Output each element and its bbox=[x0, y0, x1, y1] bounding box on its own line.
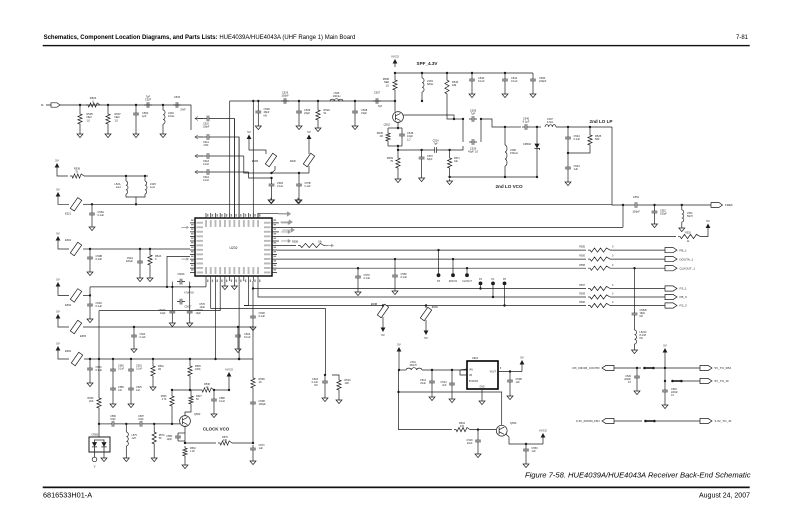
ferrite bead E52F bbox=[303, 153, 314, 166]
test point P3 bbox=[438, 250, 440, 273]
wire bbox=[83, 326, 253, 328]
svg-text:10pF: 10pF bbox=[196, 312, 202, 315]
wire bbox=[98, 410, 100, 437]
svg-text:VIN: VIN bbox=[469, 370, 473, 372]
page footer rule bbox=[43, 487, 750, 489]
input arrow bbox=[195, 117, 198, 121]
svg-text:100K: 100K bbox=[195, 368, 201, 371]
svg-text:0.1uF: 0.1uF bbox=[136, 368, 143, 371]
svg-text:FB_3: FB_3 bbox=[680, 295, 688, 299]
wire bbox=[125, 176, 127, 181]
connector 3.3V_FROM_FBJ input bbox=[602, 418, 614, 423]
power 5V arrow down bbox=[381, 328, 386, 333]
svg-text:100pF: 100pF bbox=[203, 125, 210, 128]
svg-text:10pF: 10pF bbox=[167, 438, 173, 441]
wire bbox=[244, 281, 249, 306]
capacitor C51B 0.1uF bbox=[269, 181, 275, 189]
wire bbox=[421, 92, 423, 101]
inductor L575 1uH bbox=[126, 432, 128, 446]
wire bbox=[238, 281, 240, 359]
wire bbox=[421, 73, 423, 78]
wire bbox=[233, 281, 235, 284]
capacitor C541 0.1uF bbox=[502, 76, 508, 84]
power VVCO arrow bbox=[393, 59, 398, 64]
power 5V arrow bbox=[56, 314, 61, 319]
wire bbox=[308, 143, 310, 155]
inductor L505 100nH bbox=[330, 99, 343, 101]
wire bbox=[610, 288, 665, 290]
wire bbox=[477, 430, 479, 437]
wire FS bus vertical bbox=[252, 281, 254, 313]
resistor R510 18k bbox=[445, 78, 449, 96]
wire bbox=[214, 380, 229, 390]
svg-text:470: 470 bbox=[223, 439, 228, 442]
capacitor C503 0.1uF bbox=[87, 301, 93, 309]
wire bbox=[388, 127, 402, 129]
capacitor C524B 0.1uF NU bbox=[322, 378, 328, 386]
wire bbox=[451, 370, 453, 380]
resistor R525 560 bbox=[588, 133, 592, 147]
svg-text:Q500: Q500 bbox=[510, 421, 517, 425]
svg-text:VVCO: VVCO bbox=[225, 367, 234, 371]
ground bbox=[268, 198, 274, 204]
wire bbox=[542, 441, 544, 444]
ground bbox=[211, 412, 217, 418]
wire bbox=[99, 423, 109, 425]
wire bbox=[257, 101, 259, 108]
ferrite bead E511 bbox=[671, 380, 674, 383]
wire bbox=[171, 302, 173, 308]
U202 pin names bottom row bbox=[205, 267, 207, 274]
svg-text:0.1uF: 0.1uF bbox=[305, 185, 312, 188]
wire bbox=[394, 92, 396, 101]
bus arrow bbox=[278, 213, 287, 215]
svg-text:2nF: 2nF bbox=[442, 384, 447, 387]
wire CLKOUT_1 net bbox=[277, 267, 586, 269]
svg-text:5V: 5V bbox=[55, 158, 59, 162]
resistor R555 0 bbox=[588, 248, 610, 252]
voltage regulator U901 bbox=[467, 361, 498, 389]
resistor R569 75 bbox=[396, 156, 400, 170]
ground bbox=[469, 92, 475, 98]
ferrite bead E502 bbox=[71, 352, 82, 365]
ground bbox=[110, 402, 116, 408]
ground bbox=[182, 463, 188, 469]
ground bbox=[137, 276, 143, 282]
svg-text:0.1uF: 0.1uF bbox=[118, 368, 125, 371]
ferrite bead E50C bbox=[420, 307, 431, 320]
ground bbox=[395, 177, 401, 183]
resistor R545 2R bbox=[386, 131, 390, 143]
wire bbox=[135, 197, 137, 204]
resistor R527 50 bbox=[189, 394, 193, 406]
wire FS_1 net bbox=[253, 288, 586, 290]
svg-text:FS_1: FS_1 bbox=[680, 287, 688, 291]
power 5V arrow bbox=[247, 135, 252, 140]
wire bbox=[185, 406, 191, 416]
wire bbox=[664, 356, 666, 368]
wire bbox=[171, 408, 173, 424]
ground bbox=[295, 198, 301, 204]
capacitor C5A1 2%F bbox=[204, 134, 212, 140]
wire base Q502 bbox=[394, 101, 396, 112]
svg-text:1uF: 1uF bbox=[532, 450, 537, 453]
svg-text:100pF: 100pF bbox=[259, 402, 267, 406]
svg-text:1uH: 1uH bbox=[116, 185, 121, 189]
wire U202 pin to IF chain corner bbox=[229, 101, 231, 218]
wire bbox=[610, 305, 665, 307]
U202 pin stubs left bbox=[190, 223, 195, 273]
wire bbox=[133, 327, 135, 332]
wire bbox=[610, 296, 665, 298]
wire bbox=[58, 290, 69, 295]
ground bbox=[87, 270, 93, 276]
svg-text:E52F: E52F bbox=[290, 160, 296, 163]
capacitor C524 7pF bbox=[432, 147, 440, 153]
capacitor C543 1uF bbox=[565, 164, 571, 172]
svg-text:9.1pF: 9.1pF bbox=[523, 120, 530, 124]
wire bbox=[117, 423, 137, 425]
wire bbox=[185, 442, 216, 444]
capacitor C56A 0.1uF bbox=[89, 210, 95, 218]
wire bbox=[139, 249, 141, 258]
ferrite bead E521 bbox=[70, 198, 81, 211]
wire FS_3 net bbox=[244, 305, 586, 307]
node X1 bbox=[171, 286, 173, 288]
svg-text:5V: 5V bbox=[56, 231, 60, 235]
svg-text:IF: IF bbox=[41, 103, 44, 107]
wire bbox=[567, 153, 569, 164]
capacitor C540 0.1uF bbox=[469, 76, 475, 84]
U202 pin stubs bottom bbox=[206, 276, 258, 281]
wire C5A1 to U202 pin bbox=[212, 137, 239, 218]
svg-text:C5017: C5017 bbox=[184, 306, 192, 309]
svg-text:1uF: 1uF bbox=[574, 167, 579, 171]
resistor R523 10K bbox=[337, 378, 341, 392]
transistor Q502 bbox=[393, 112, 404, 123]
svg-text:RX_FROM_CONTR: RX_FROM_CONTR bbox=[572, 366, 600, 370]
ferrite bead E505 bbox=[70, 320, 81, 333]
wire C5A2 coupling bbox=[212, 171, 249, 173]
capacitor C52B 1uF bbox=[507, 377, 513, 385]
svg-text:1uF: 1uF bbox=[136, 389, 141, 392]
bus arrow bbox=[281, 213, 288, 215]
wire bbox=[98, 311, 100, 359]
svg-text:2nd LO LP: 2nd LO LP bbox=[590, 119, 613, 124]
svg-text:0.1uF: 0.1uF bbox=[203, 179, 210, 182]
svg-text:0.1uF: 0.1uF bbox=[140, 336, 147, 339]
capacitor C528B 0.1uF bbox=[250, 313, 256, 321]
power 5V arrow down bbox=[424, 331, 429, 336]
connector FB_3 bbox=[665, 294, 677, 299]
wire bbox=[224, 281, 226, 284]
connector FS_3 bbox=[665, 303, 677, 308]
bus arrow bbox=[280, 221, 289, 223]
svg-text:10nH: 10nH bbox=[168, 114, 174, 118]
capacitor C552 100pF bbox=[652, 208, 658, 216]
svg-text:0.1uF: 0.1uF bbox=[244, 335, 251, 339]
connector FREF output bbox=[711, 203, 723, 208]
svg-text:3.3V_FROM_FBJ: 3.3V_FROM_FBJ bbox=[576, 419, 600, 423]
ground bbox=[128, 402, 134, 408]
resistor R507 bbox=[106, 112, 110, 126]
wire bbox=[190, 390, 192, 394]
ground bbox=[530, 92, 536, 98]
svg-text:10pF: 10pF bbox=[160, 312, 166, 315]
resistor R557 0 bbox=[588, 286, 610, 290]
capacitor C552F 18pF NU bbox=[632, 310, 638, 318]
wire bbox=[189, 378, 191, 390]
ground bbox=[336, 398, 342, 404]
wire to U202 bbox=[167, 257, 190, 287]
wire bbox=[233, 119, 235, 219]
wire bbox=[83, 248, 90, 250]
wire bbox=[525, 444, 527, 446]
wire bbox=[357, 268, 359, 273]
wire bbox=[79, 105, 81, 112]
capacitor C520B 220pF 1/J bbox=[634, 373, 640, 381]
svg-text:0.1uF: 0.1uF bbox=[259, 314, 266, 318]
test point P0 bbox=[504, 285, 506, 305]
wire bbox=[656, 420, 700, 422]
svg-text:1pF: 1pF bbox=[142, 114, 147, 118]
wire FB_3 from U202 bbox=[258, 281, 586, 297]
resistor R526 1K bbox=[251, 376, 255, 390]
capacitor C529B 220pF 1/J bbox=[662, 387, 668, 395]
ferrite bead E503 bbox=[70, 289, 81, 302]
svg-text:56nH: 56nH bbox=[687, 215, 693, 218]
wire bbox=[252, 390, 254, 399]
wire bbox=[504, 166, 506, 177]
capacitor C570B 0.1uF bbox=[355, 273, 361, 281]
capacitor C545B 1uF bbox=[110, 385, 116, 393]
inductor L503 68nH bbox=[422, 78, 424, 92]
svg-text:C5016: C5016 bbox=[177, 273, 185, 276]
svg-text:SPF_4.3V: SPF_4.3V bbox=[417, 61, 439, 66]
wire bbox=[556, 126, 612, 128]
resistor R502 470 bbox=[454, 428, 470, 432]
capacitor C57B 0.1uF bbox=[296, 181, 302, 189]
svg-text:5V_TO_JF: 5V_TO_JF bbox=[715, 379, 730, 383]
wire bbox=[189, 302, 191, 308]
resistor R576 5K bbox=[152, 430, 156, 446]
svg-text:R555: R555 bbox=[579, 246, 585, 249]
wire bbox=[184, 426, 186, 433]
ground bbox=[87, 381, 93, 387]
svg-text:2nd LO VCO: 2nd LO VCO bbox=[495, 184, 522, 189]
wire bbox=[162, 105, 164, 110]
wire bbox=[252, 359, 254, 376]
svg-text:7pF: 7pF bbox=[471, 112, 476, 116]
svg-text:22uF: 22uF bbox=[420, 382, 426, 385]
svg-text:0.1uF: 0.1uF bbox=[478, 79, 485, 83]
svg-text:Schematics, Component Location: Schematics, Component Location Diagrams,… bbox=[44, 35, 356, 41]
resistor R532 2R bbox=[151, 364, 155, 378]
resistor R520 51 bbox=[316, 108, 320, 122]
capacitor C5016 4.7pF NU bbox=[177, 279, 185, 285]
wire FB_1 net bbox=[277, 249, 586, 251]
capacitor C5015 10pF bbox=[169, 308, 175, 316]
wire bbox=[460, 369, 467, 370]
svg-text:68nH: 68nH bbox=[427, 82, 433, 86]
svg-text:10uF: 10uF bbox=[200, 306, 206, 309]
svg-text:5V: 5V bbox=[424, 336, 428, 340]
svg-text:E521: E521 bbox=[65, 212, 72, 216]
wire bbox=[700, 232, 708, 237]
svg-text:5V: 5V bbox=[56, 277, 60, 281]
capacitor C507 7pF bbox=[373, 98, 381, 104]
wire bbox=[471, 73, 473, 76]
wire bbox=[683, 380, 700, 382]
wire bbox=[238, 137, 240, 218]
ferrite bead E504 bbox=[70, 242, 81, 255]
svg-text:47uH: 47uH bbox=[547, 120, 553, 124]
power 5V arrow bbox=[663, 348, 668, 353]
bus arrow bbox=[281, 222, 288, 224]
svg-text:DOUTA_1: DOUTA_1 bbox=[680, 257, 694, 261]
capacitor C514 2nF bbox=[449, 380, 455, 388]
wire bbox=[58, 322, 69, 327]
svg-text:0.1uF: 0.1uF bbox=[401, 275, 408, 279]
wire bbox=[215, 281, 217, 359]
resistor R538B 4.7K bbox=[170, 394, 174, 408]
node bbox=[139, 248, 141, 250]
inductor L507 47uH bbox=[545, 125, 556, 127]
ground bbox=[222, 284, 228, 290]
ground bbox=[449, 397, 455, 403]
ground bbox=[315, 126, 321, 132]
ground bbox=[169, 321, 175, 327]
diode CR501b bbox=[103, 440, 105, 443]
svg-text:FREF: FREF bbox=[725, 203, 733, 207]
wire bbox=[568, 147, 590, 153]
connector FS_1 bbox=[665, 286, 677, 291]
wire bbox=[422, 369, 467, 371]
inductor L550 56nH bbox=[682, 210, 684, 222]
capacitor C50B 0.1uF bbox=[87, 254, 93, 262]
svg-text:R557: R557 bbox=[579, 284, 585, 287]
svg-text:VVCO: VVCO bbox=[391, 54, 400, 58]
svg-text:5V: 5V bbox=[56, 187, 60, 191]
svg-text:E504: E504 bbox=[65, 238, 72, 242]
power 5V arrow bbox=[56, 236, 61, 241]
svg-text:23pF: 23pF bbox=[361, 111, 367, 115]
svg-text:6816533H01-A: 6816533H01-A bbox=[43, 491, 92, 500]
wire bbox=[521, 368, 523, 372]
wire clock VCO supply rail bbox=[84, 358, 253, 360]
test point DOUTA bbox=[452, 259, 454, 273]
wire bbox=[317, 101, 319, 108]
connector FB_1 bbox=[665, 248, 677, 253]
svg-text:DOUTA: DOUTA bbox=[449, 280, 458, 283]
U202 pin stubs right bbox=[272, 223, 277, 273]
svg-text:1uH: 1uH bbox=[150, 185, 155, 189]
wire bbox=[636, 368, 638, 373]
ground bbox=[507, 394, 513, 400]
ferrite bead E50B bbox=[265, 153, 276, 166]
wire bbox=[440, 146, 463, 150]
resistor R508 bbox=[393, 78, 397, 92]
test point P2 bbox=[480, 285, 482, 288]
wire bbox=[399, 370, 453, 430]
svg-text:100nH: 100nH bbox=[333, 94, 341, 98]
wire bbox=[83, 203, 92, 205]
ground bbox=[392, 289, 398, 295]
wire bbox=[640, 204, 711, 206]
wire FREF row bbox=[612, 203, 632, 206]
wire bbox=[211, 281, 326, 308]
ground bbox=[419, 176, 425, 182]
ground bbox=[87, 317, 93, 323]
ground bbox=[662, 403, 668, 409]
ground bbox=[131, 347, 137, 353]
node X2 bbox=[189, 286, 191, 288]
svg-text:NU: NU bbox=[640, 337, 644, 340]
node IF1 bbox=[79, 104, 81, 106]
wire emitter Q502 bbox=[397, 122, 399, 128]
resistor R50B 10k bbox=[298, 243, 324, 247]
ground bbox=[523, 462, 529, 468]
svg-text:7pF: 7pF bbox=[433, 143, 438, 146]
wire bbox=[397, 150, 399, 156]
wire bbox=[99, 281, 220, 311]
capacitor C589 10pF bbox=[175, 433, 181, 441]
bus arrow bbox=[281, 240, 288, 242]
wire bbox=[332, 375, 339, 378]
svg-text:V: V bbox=[94, 465, 96, 469]
connector RX_FROM_CONTR input bbox=[602, 365, 614, 370]
wire FREF distribution net bbox=[92, 203, 612, 205]
wire bbox=[654, 205, 656, 208]
svg-text:U901: U901 bbox=[472, 356, 479, 360]
ground bbox=[250, 459, 256, 465]
capacitor C509 23pF bbox=[296, 108, 302, 116]
svg-text:R552: R552 bbox=[685, 231, 691, 234]
wire bbox=[189, 287, 191, 302]
wire bbox=[58, 244, 69, 249]
ground bbox=[77, 132, 83, 138]
ground bbox=[679, 226, 685, 232]
wire bbox=[271, 178, 273, 181]
wire bbox=[213, 390, 215, 396]
wire VOUT bbox=[498, 371, 522, 373]
svg-text:E50C: E50C bbox=[432, 305, 439, 309]
wire bbox=[421, 150, 423, 154]
svg-text:220pF: 220pF bbox=[126, 260, 134, 263]
wire bbox=[171, 390, 173, 394]
wire bbox=[664, 368, 666, 381]
wire bbox=[145, 423, 180, 425]
svg-text:BYPASS: BYPASS bbox=[469, 380, 478, 383]
wire bbox=[634, 318, 636, 330]
capacitor C524A 0.1uF bbox=[131, 332, 137, 340]
capacitor C546 10pF bbox=[399, 131, 405, 139]
U202 pin numbers bbox=[207, 214, 208, 217]
test point P1 bbox=[492, 285, 494, 297]
capacitor C544 0.1uF bbox=[565, 134, 571, 142]
ground bbox=[235, 347, 241, 353]
wire bbox=[90, 248, 190, 250]
svg-text:150nH: 150nH bbox=[510, 151, 518, 155]
svg-text:CLKOUT_1: CLKOUT_1 bbox=[680, 266, 696, 270]
capacitor C538 100pF bbox=[250, 399, 256, 407]
svg-text:E502: E502 bbox=[65, 349, 72, 353]
ground bbox=[565, 180, 571, 186]
ground bbox=[502, 92, 508, 98]
capacitor C560 220pF bbox=[530, 76, 536, 84]
wire 2nd LO VCO bottom rail bbox=[450, 176, 537, 178]
wire bbox=[394, 73, 396, 78]
